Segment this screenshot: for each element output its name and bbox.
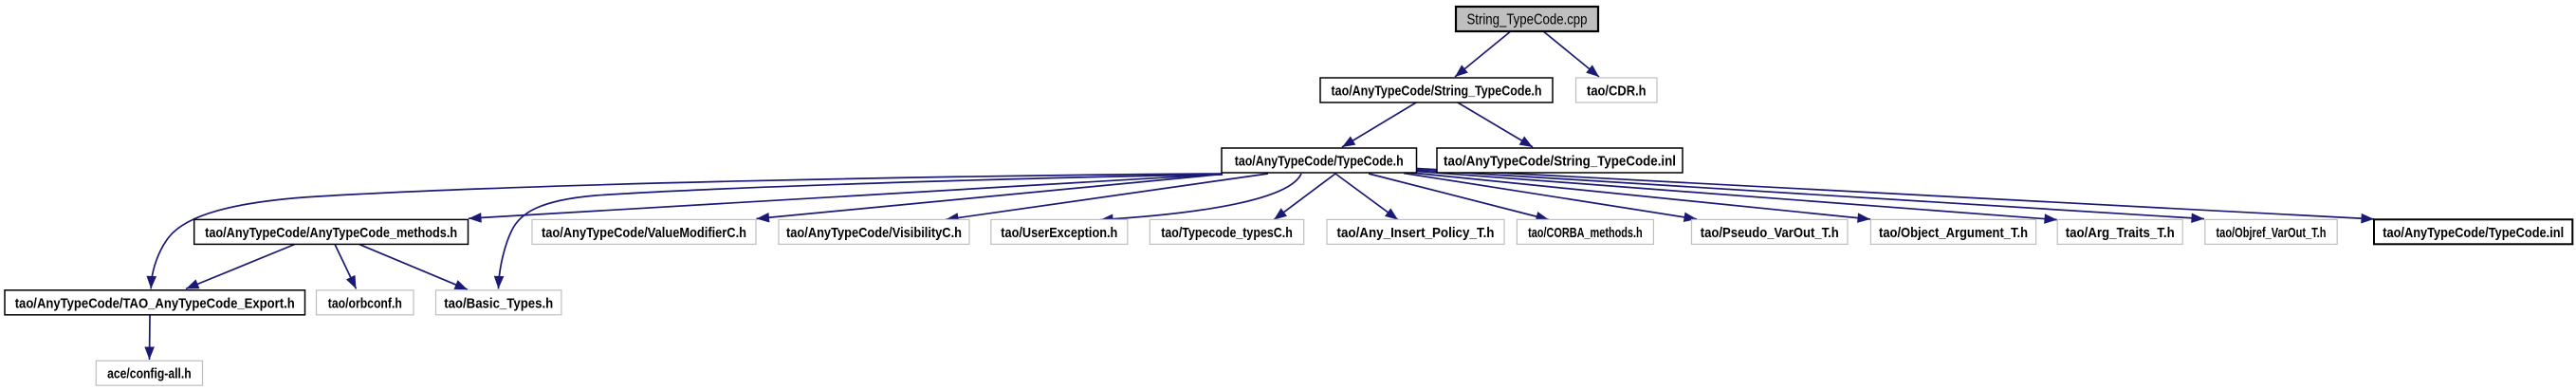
svg-text:tao/Arg_Traits_T.h: tao/Arg_Traits_T.h (2066, 225, 2175, 241)
svg-text:tao/AnyTypeCode/AnyTypeCode_me: tao/AnyTypeCode/AnyTypeCode_methods.h (205, 225, 457, 241)
svg-text:tao/CDR.h: tao/CDR.h (1587, 84, 1647, 100)
wire TAO_AnyTypeCode_Export.h to ace/config-all.h (149, 315, 152, 360)
node tao/Typecode_typesC.h (1150, 219, 1303, 244)
svg-text:tao/AnyTypeCode/String_TypeCod: tao/AnyTypeCode/String_TypeCode.inl (1444, 154, 1676, 170)
node tao/Arg_Traits_T.h (2057, 219, 2182, 244)
svg-text:tao/Typecode_typesC.h: tao/Typecode_typesC.h (1161, 225, 1293, 241)
node tao/Basic_Types.h (436, 290, 561, 315)
node tao/AnyTypeCode/TypeCode.h (1222, 148, 1417, 173)
node tao/AnyTypeCode/String_TypeCode.h (1320, 78, 1553, 102)
svg-text:tao/AnyTypeCode/TypeCode.inl: tao/AnyTypeCode/TypeCode.inl (2383, 225, 2564, 241)
wire TypeCode.h to Basic_Types.h (curve) (499, 175, 1224, 288)
svg-text:tao/Objref_VarOut_T.h: tao/Objref_VarOut_T.h (2217, 225, 2327, 241)
svg-text:tao/AnyTypeCode/TAO_AnyTypeCod: tao/AnyTypeCode/TAO_AnyTypeCode_Export.h (15, 295, 295, 311)
node tao/AnyTypeCode/TypeCode.inl (2374, 219, 2572, 244)
node tao/AnyTypeCode/AnyTypeCode_methods.h (194, 219, 469, 244)
svg-text:tao/AnyTypeCode/ValueModifierC: tao/AnyTypeCode/ValueModifierC.h (542, 225, 746, 241)
wire AnyTypeCode_methods.h to orbconf.h (335, 244, 357, 288)
wire TypeCode.h to Objref_VarOut_T.h (1417, 170, 2205, 219)
node tao/AnyTypeCode/ValueModifierC.h (532, 219, 756, 244)
svg-text:tao/UserException.h: tao/UserException.h (1001, 225, 1117, 241)
wire TypeCode.h to UserException.h (1100, 174, 1301, 220)
node tao/AnyTypeCode/VisibilityC.h (779, 219, 969, 244)
node tao/Any_Insert_Policy_T.h (1327, 219, 1504, 244)
svg-text:tao/Object_Argument_T.h: tao/Object_Argument_T.h (1879, 225, 2028, 241)
wire TypeCode.h to TypeCode.inl (1417, 169, 2375, 219)
node tao/Objref_VarOut_T.h (2205, 219, 2337, 244)
node tao/AnyTypeCode/TAO_AnyTypeCode_Export.h (5, 290, 305, 315)
wire TypeCode.h to Arg_Traits_T.h (1417, 172, 2058, 220)
node tao/AnyTypeCode/String_TypeCode.inl (1437, 148, 1683, 173)
wire TypeCode.h to TAO_AnyTypeCode_Export.h (curve) (151, 174, 1223, 288)
svg-text:tao/AnyTypeCode/String_TypeCod: tao/AnyTypeCode/String_TypeCode.h (1332, 84, 1542, 100)
wire TypeCode.h to VisibilityC.h (946, 174, 1268, 219)
wire root to CDR.h (1542, 30, 1599, 77)
wire AnyTypeCode_methods.h to Basic_Types.h (359, 244, 468, 289)
wire TypeCode.h to Typecode_typesC.h (1274, 174, 1335, 220)
node tao/CDR.h (1576, 78, 1658, 102)
svg-text:tao/Any_Insert_Policy_T.h: tao/Any_Insert_Policy_T.h (1337, 225, 1495, 241)
svg-text:tao/Pseudo_VarOut_T.h: tao/Pseudo_VarOut_T.h (1701, 225, 1839, 241)
wire TypeCode.h to Any_Insert_Policy_T.h (1335, 174, 1398, 220)
wire TypeCode.h to CORBA_methods.h (1369, 174, 1549, 220)
wire String_TypeCode.h to String_TypeCode.inl (1457, 102, 1533, 148)
svg-text:String_TypeCode.cpp: String_TypeCode.cpp (1467, 11, 1588, 28)
svg-text:tao/AnyTypeCode/TypeCode.h: tao/AnyTypeCode/TypeCode.h (1235, 154, 1404, 170)
svg-text:tao/CORBA_methods.h: tao/CORBA_methods.h (1528, 225, 1643, 241)
node tao/Object_Argument_T.h (1870, 219, 2035, 244)
wire TypeCode.h to Pseudo_VarOut_T.h (1404, 174, 1697, 219)
wire TypeCode.h to Object_Argument_T.h (1411, 173, 1870, 219)
wire AnyTypeCode_methods.h to TAO_AnyTypeCode_Export.h (186, 244, 295, 288)
node ace/config-all.h (96, 361, 202, 385)
svg-text:tao/Basic_Types.h: tao/Basic_Types.h (444, 295, 553, 311)
svg-text:tao/orbconf.h: tao/orbconf.h (328, 295, 402, 311)
node tao/Pseudo_VarOut_T.h (1692, 219, 1849, 244)
node tao/UserException.h (991, 219, 1128, 244)
wire TypeCode.h to AnyTypeCode_methods.h (469, 175, 1223, 219)
wire String_TypeCode.h to TypeCode.h (1342, 102, 1417, 148)
node tao/CORBA_methods.h (1517, 219, 1653, 244)
wire TypeCode.h to ValueModifierC.h (757, 175, 1224, 219)
wire root to String_TypeCode.h (1455, 30, 1512, 77)
node String_TypeCode.cpp (root) (1456, 7, 1598, 31)
node tao/orbconf.h (317, 290, 414, 315)
svg-text:tao/AnyTypeCode/VisibilityC.h: tao/AnyTypeCode/VisibilityC.h (786, 225, 962, 241)
svg-text:ace/config-all.h: ace/config-all.h (107, 366, 192, 382)
